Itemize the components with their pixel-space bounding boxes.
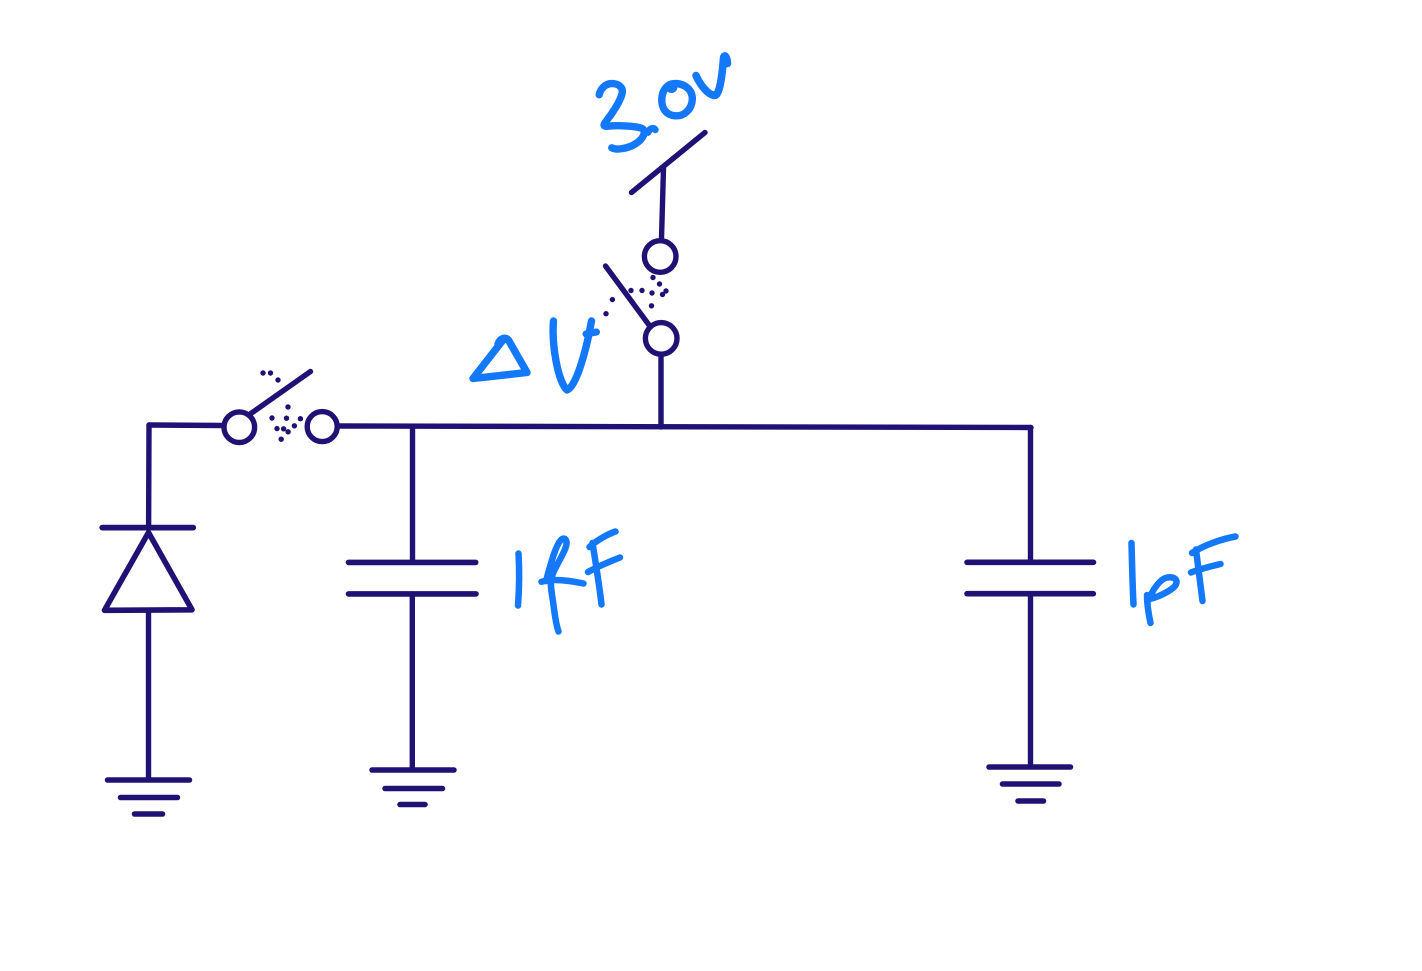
label 3.0V digit 3 bbox=[599, 84, 644, 149]
wire S2 down to diode D1 bbox=[146, 425, 152, 528]
label 3.0V decimal point bbox=[648, 128, 655, 132]
switch S2 left contact bbox=[224, 412, 255, 443]
label 3.0V digit 0 start blob bbox=[666, 81, 678, 93]
diode D1 triangle bbox=[105, 533, 193, 611]
label C1 value 1fF letter F top bar bbox=[590, 532, 616, 548]
label C1 value 1fF letter F mid bar bbox=[588, 558, 620, 573]
label C2 value 1pF letter p stem bbox=[1147, 595, 1151, 623]
wire C1 to ground bbox=[410, 594, 415, 770]
label dV delta bbox=[473, 338, 527, 378]
wire D1 to ground bbox=[146, 611, 151, 779]
label 3.0V digit 0 bbox=[662, 84, 693, 116]
wire bus to capacitor C2 bbox=[1028, 428, 1033, 562]
ground G2 bbox=[372, 770, 454, 805]
switch S1 arm bbox=[606, 266, 651, 327]
capacitor C1 top plate bbox=[349, 560, 476, 566]
label C1 value 1fF letter f bbox=[546, 539, 567, 632]
wire left branch to S2 bbox=[149, 422, 223, 428]
label C1 value 1fF letter f crossbar bbox=[542, 580, 584, 583]
wire C2 to ground bbox=[1028, 594, 1033, 767]
label C2 value 1pF letter F stem bbox=[1196, 550, 1203, 602]
ground G3 bbox=[989, 767, 1071, 801]
switch S1 bottom contact bbox=[645, 323, 677, 355]
label C2 value 1pF letter p bowl bbox=[1148, 577, 1177, 601]
capacitor C1 bottom plate bbox=[349, 591, 477, 597]
label C1 value 1fF digit 1 bbox=[518, 554, 519, 606]
wire S1 to bus bbox=[658, 357, 663, 428]
supply symbol V1 3.0V bbox=[632, 133, 706, 239]
wire bus node A bbox=[339, 426, 1032, 428]
switch S2 arm bbox=[250, 372, 311, 415]
label dV letter V tick bbox=[586, 332, 597, 334]
capacitor C2 top plate bbox=[967, 559, 1094, 565]
label C1 value 1fF letter F stem bbox=[593, 543, 602, 605]
switch S1 top contact bbox=[644, 241, 676, 273]
switch S1 actuation dots bbox=[603, 275, 668, 317]
label dV letter V bbox=[553, 321, 591, 390]
ground G1 bbox=[108, 780, 190, 814]
label C2 value 1pF letter F mid bar bbox=[1191, 564, 1221, 573]
wire bus to capacitor C1 bbox=[410, 427, 415, 562]
label 3.0V letter V bbox=[696, 56, 728, 96]
capacitor C2 bottom plate bbox=[967, 591, 1093, 597]
diode D1 cathode bar bbox=[102, 525, 193, 531]
switch S2 actuation dots bbox=[260, 370, 303, 442]
switch S2 right contact bbox=[307, 412, 337, 442]
label C2 value 1pF letter F top bar bbox=[1192, 537, 1236, 554]
label C2 value 1pF digit 1 bbox=[1132, 543, 1134, 605]
